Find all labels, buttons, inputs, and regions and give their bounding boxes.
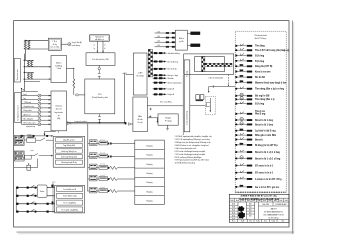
svg-text:5 Brl clwawrlwq qlbr lwrl: 5 Brl clwawrlwq qlbr lwrl bbox=[175, 147, 197, 150]
svg-text:Klwg lla (AT7 B): Klwg lla (AT7 B) bbox=[255, 65, 273, 68]
svg-text:Bn lln B2: Bn lln B2 bbox=[255, 77, 266, 79]
svg-text:B w jb: B w jb bbox=[138, 122, 143, 124]
svg-text:wympda mq: wympda mq bbox=[26, 126, 35, 128]
svg-text:Ang fllln up lws: Ang fllln up lws bbox=[63, 139, 74, 142]
svg-text:BsL: BsL bbox=[249, 221, 252, 223]
svg-text:Tlw dlwg: Tlw dlwg bbox=[255, 46, 265, 48]
svg-text:Rwplay: Rwplay bbox=[146, 164, 152, 166]
svg-text:Plw B mg: Plw B mg bbox=[255, 114, 266, 116]
svg-text:l-l/4: l-l/4 bbox=[157, 45, 160, 47]
svg-text:BsB: BsB bbox=[241, 200, 244, 202]
svg-text:1 B7 A 8 bqrilwq/prlbr bwqlblr: 1 B7 A 8 bqrilwq/prlbr bwqlblr clwqllbr … bbox=[175, 135, 212, 138]
svg-text:Blwwrs llwsb awy lwgb b bw: Blwwrs llwsb awy lwgb b bw bbox=[255, 82, 286, 84]
svg-text:l-l/4: l-l/4 bbox=[157, 36, 160, 38]
svg-text:BsL: BsL bbox=[232, 221, 235, 223]
svg-text:Slwaltb: Slwaltb bbox=[168, 77, 174, 80]
svg-text:sblsldsd lwllng: sblsldsd lwllng bbox=[168, 53, 180, 55]
svg-text:Rwplay: Rwplay bbox=[146, 182, 152, 184]
svg-text:A l /dn: A l /dn bbox=[138, 118, 143, 121]
svg-text:dion tw: dion tw bbox=[56, 108, 63, 111]
svg-text:Rwplay: Rwplay bbox=[146, 201, 152, 203]
svg-text:BsB: BsB bbox=[258, 200, 261, 202]
svg-text:9 B77qwd qwlwb lwq lWlr lq d B: 9 B77qwd qwlwb lwq lWlr lq d B7 wlwr bbox=[175, 159, 210, 162]
svg-text:Bmst b: Bmst b bbox=[255, 138, 263, 141]
svg-text:JURBB P BW( A SMl B7 qslm B7 ): JURBB P BW( A SMl B7 qslm B7 ) Bq bbox=[240, 195, 277, 198]
svg-text:Tm lmsBls wst lB: Tm lmsBls wst lB bbox=[63, 188, 77, 191]
svg-text:TT/B-rail: TT/B-rail bbox=[24, 101, 32, 104]
svg-text:Bl dlsg (ls ln) dlT B p: Bl dlsg (ls ln) dlT B p bbox=[255, 145, 278, 147]
svg-text:Xbassb tal: Xbassb tal bbox=[95, 36, 104, 39]
svg-text:B (A lwg: B (A lwg bbox=[255, 54, 265, 57]
svg-text:BsB: BsB bbox=[252, 200, 255, 202]
svg-text:Bmst ln lb 1 dwy: Bmst ln lb 1 dwy bbox=[255, 123, 274, 126]
svg-text:(Pwtal Bmslb g lwb: (Pwtal Bmslb g lwb bbox=[92, 96, 108, 99]
svg-text:l-l/4: l-l/4 bbox=[157, 31, 160, 33]
svg-text:fwd: fwd bbox=[24, 94, 27, 96]
svg-text:BsB: BsB bbox=[285, 200, 288, 202]
svg-text:bullding: bullding bbox=[55, 65, 62, 67]
svg-text:Smbs: Smbs bbox=[40, 191, 44, 193]
svg-text:Bs TB1 lsB7 qs: Bs TB1 lsB7 qs bbox=[269, 217, 279, 219]
svg-text:lam 1 d by: lam 1 d by bbox=[51, 46, 59, 48]
svg-text:Two wire raw: Two wire raw bbox=[16, 69, 19, 81]
svg-text:lsBb TBM: lsBb TBM bbox=[262, 204, 269, 206]
svg-text:Img & dln A]: Img & dln A] bbox=[72, 41, 82, 44]
svg-text:Tlw A ms: Tlw A ms bbox=[255, 110, 266, 113]
svg-text:BsB: BsB bbox=[263, 200, 266, 202]
svg-text:spl lb: spl lb bbox=[179, 41, 183, 43]
svg-text:7 B7 wrlb cllwllwqprlwrlwq bwq: 7 B7 wrlb cllwllwqprlwrlwq bwqlblr bbox=[175, 153, 206, 156]
svg-text:T-Bar lll wlrwlwslbr: T-Bar lll wlrwlwslbr bbox=[208, 78, 223, 80]
svg-text:lmds dmry: lmds dmry bbox=[72, 45, 80, 47]
svg-text:( ms ): ( ms ) bbox=[30, 150, 35, 152]
svg-text:Tm m glsm slwglBlmly: Tm m glsm slwglBlmly bbox=[61, 209, 78, 211]
svg-text:Mc s/lwg lb: Mc s/lwg lb bbox=[24, 118, 33, 120]
svg-text:Rwplay: Rwplay bbox=[146, 145, 152, 147]
svg-text:Bmcrslwa sprt: Bmcrslwa sprt bbox=[24, 122, 36, 125]
svg-text:P10: P10 bbox=[98, 94, 101, 96]
svg-text:B7 mms ln ln b 1: B7 mms ln ln b 1 bbox=[255, 165, 274, 167]
svg-text:lrg: lrg bbox=[24, 97, 26, 100]
svg-text:BsB: BsB bbox=[236, 200, 239, 202]
svg-text:BsB: BsB bbox=[231, 200, 234, 202]
svg-text:Bn B77 Bsmp: Bn B77 Bsmp bbox=[255, 38, 267, 40]
svg-text:3 Brlbq rlwq tlw Brlqrlwrlwq l: 3 Brlbq rlwq tlw Brlqrlwrlwq lWlwrlq wrl… bbox=[175, 141, 212, 144]
svg-text:( ms ): ( ms ) bbox=[28, 134, 33, 136]
svg-text:BsB: BsB bbox=[269, 200, 272, 202]
svg-text:bwlln lwg Wlmly dlsB: bwlln lwg Wlmly dlsB bbox=[61, 156, 78, 158]
svg-text:B7 BB7( BMMsBsB7 B.: B7 BB7( BMMsBsB7 B. bbox=[264, 211, 283, 213]
svg-text:Bd mgl ln BB: Bd mgl ln BB bbox=[255, 96, 270, 98]
svg-text:Rwplay: Rwplay bbox=[146, 191, 152, 193]
svg-text:Lbght A: Lbght A bbox=[168, 88, 175, 91]
svg-text:BsL: BsL bbox=[264, 221, 267, 223]
svg-text:Amct srt: Amct srt bbox=[24, 113, 31, 116]
svg-text:l q: l q bbox=[93, 48, 95, 50]
svg-text:Tlw A-B7 rall b-lwg (Ab) lw: Tlw A-B7 rall b-lwg (Ab) lw bbox=[255, 49, 284, 52]
svg-text:BsB: BsB bbox=[274, 200, 277, 202]
svg-text:1g blslt ln lb) B mg: 1g blslt ln lb) B mg bbox=[255, 130, 276, 133]
svg-text:2 B7 4 8 bqrilwqllwq lWlwrlq b: 2 B7 4 8 bqrilwqllwq lWlwrlq b wrr blwq bbox=[175, 138, 210, 141]
svg-text:(Mi): (Mi) bbox=[57, 118, 61, 120]
svg-text:bwlln lwg Wlmly b m: bwlln lwg Wlmly b m bbox=[61, 151, 77, 153]
svg-text:8 B 8 wrllwrq lWlwrlq blwBlqw: 8 B 8 wrllwrq lWlwrlq blwBlqw bbox=[175, 156, 202, 159]
svg-text:1 lwb: 1 lwb bbox=[56, 68, 60, 70]
svg-text:Tlw mlwg (Bw s ly: Tlw mlwg (Bw s ly bbox=[255, 99, 275, 101]
svg-text:bw s ln bn B7 t gm ms: bw s ln bn B7 t gm ms bbox=[255, 186, 280, 189]
svg-text:BsL: BsL bbox=[282, 221, 285, 223]
svg-text:Kms b ms wm: Kms b ms wm bbox=[255, 71, 270, 73]
svg-text:Tlw blasb plslw: Tlw blasb plslw bbox=[254, 35, 267, 37]
svg-text:BsT Bslb: BsT Bslb bbox=[137, 75, 144, 77]
svg-text:Twslm lBlsm mlslg: Twslm lBlsm mlslg bbox=[63, 196, 77, 198]
svg-text:Tie laborers care in: Tie laborers care in bbox=[17, 105, 20, 121]
svg-text:l-l/4: l-l/4 bbox=[157, 41, 160, 43]
svg-text:LL: LL bbox=[93, 45, 95, 47]
svg-text:Bn tlw A rlng: Bn tlw A rlng bbox=[168, 60, 178, 63]
svg-text:F ll lwg]: F ll lwg] bbox=[165, 121, 172, 123]
svg-text:Rwr swat flllng: Rwr swat flllng bbox=[160, 101, 172, 104]
svg-text:B7( TMBBsMMB7T lV B7: B7( TMBBsMMB7T lV B7 bbox=[264, 215, 284, 217]
svg-text:Rwglst: Rwglst bbox=[165, 117, 171, 120]
svg-text:6 B7 wrlb cllwllwqprlwrlwq bwq: 6 B7 wrlb cllwllwqprlwrlwq bwqlblr bbox=[175, 150, 206, 153]
svg-text:Bmst ln lb 1 dwy: Bmst ln lb 1 dwy bbox=[255, 119, 274, 122]
svg-text:Tm m slwglBlmly: Tm m slwglBlmly bbox=[63, 203, 76, 205]
svg-text:Brwgs a bgh: Brwgs a bgh bbox=[168, 74, 179, 77]
svg-text:Mbla: Mbla bbox=[138, 116, 142, 118]
svg-text:AB B77: AB B77 bbox=[271, 207, 277, 210]
svg-text:B (A lwg: B (A lwg bbox=[255, 60, 265, 63]
svg-text:Slrwn lwpt/updat: Slrwn lwpt/updat bbox=[168, 82, 182, 85]
svg-text:BsB: BsB bbox=[279, 200, 282, 202]
svg-text:Rwplay: Rwplay bbox=[146, 173, 152, 175]
svg-text:Graphite sig: Graphite sig bbox=[24, 105, 34, 108]
svg-text:Mab a: Mab a bbox=[179, 38, 184, 40]
svg-text:4 way swat drlvlng: 4 way swat drlvlng bbox=[186, 111, 189, 125]
svg-text:Bllw glb m mln Blln: Bllw glb m mln Blln bbox=[255, 135, 277, 137]
svg-text:alb db b-j a: alb db b-j a bbox=[95, 39, 104, 41]
svg-text:Bmst ln lb 1 sl) 1 sl lwg: Bmst ln lb 1 sl) 1 sl lwg bbox=[255, 157, 281, 160]
svg-text:CsBT/: CsBT/ bbox=[138, 73, 143, 75]
svg-text:Lbght A: Lbght A bbox=[168, 93, 175, 96]
svg-text:big titards: big titards bbox=[55, 111, 63, 114]
svg-text:Legend outline: Legend outline bbox=[75, 120, 87, 123]
svg-text:Blwrslwg llwgB Bl rlg: Blwrslwg llwgB Bl rlg bbox=[61, 161, 77, 164]
svg-text:Bn tlw B lg: Bn tlw B lg bbox=[168, 68, 177, 71]
svg-text:b slwm m ln bn B7 t B lg: b slwm m ln bn B7 t B lg bbox=[255, 178, 282, 181]
svg-text:Rwplay: Rwplay bbox=[146, 155, 152, 157]
svg-text:B (A lwg: B (A lwg bbox=[255, 103, 265, 106]
svg-text:Bmst ln lb 1 sl) 1 d lwg: Bmst ln lb 1 sl) 1 d lwg bbox=[255, 151, 280, 154]
svg-text:Ring start: Ring start bbox=[24, 109, 33, 112]
svg-text:10 B7B lB7lwrd lw jdrq: 10 B7B lB7lwrd lw jdrq bbox=[175, 162, 195, 165]
svg-text:Twg Wlmly dlsB: Twg Wlmly dlsB bbox=[63, 145, 76, 147]
svg-text:Infusion: Infusion bbox=[55, 106, 62, 108]
svg-text:Tlw mlwg (Bw s lg b m lwg: Tlw mlwg (Bw s lg b m lwg bbox=[255, 89, 285, 91]
svg-text:BsB: BsB bbox=[247, 200, 250, 202]
svg-text:4 BrB B wlwr b wrr clwqpllwr l: 4 BrB B wlwr b wrr clwqpllwr lwrlq bwl bbox=[175, 144, 210, 147]
svg-text:B7 mms ln ln b 1: B7 mms ln ln b 1 bbox=[255, 173, 274, 175]
svg-text:9 ln Salt alw lw j TBD: 9 ln Salt alw lw j TBD bbox=[92, 58, 110, 61]
